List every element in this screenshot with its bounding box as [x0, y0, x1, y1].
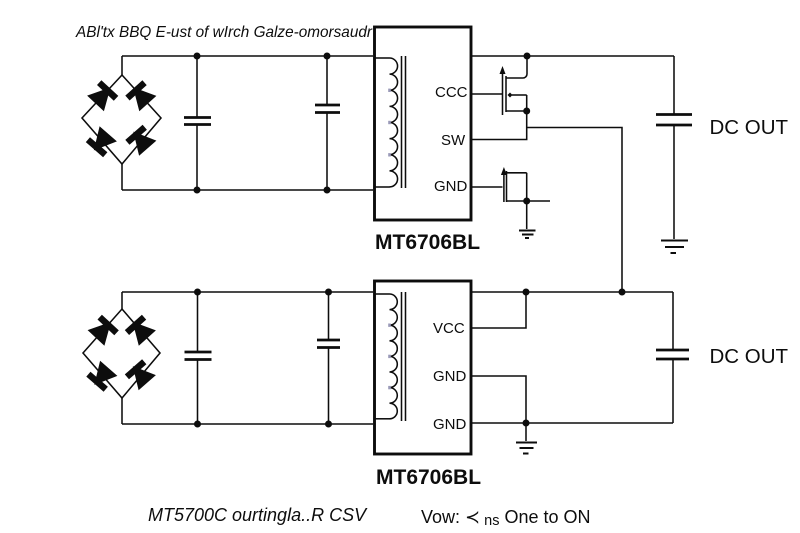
op-amp U1 (IC MT6706BL box) — [375, 27, 472, 220]
wire IC top right rail — [471, 55, 674, 57]
svg-text:Vow: ≺ ns One to ON: Vow: ≺ ns One to ON — [421, 507, 591, 529]
transformer T1 core lines — [401, 56, 403, 188]
diode D6 — [125, 315, 156, 346]
diode D1 — [87, 80, 118, 111]
wire bottom rail bottom circuit — [122, 423, 373, 425]
wire top rail — [122, 55, 373, 57]
wire Q2 source to ground — [526, 201, 528, 229]
node dot top C1 — [194, 53, 201, 60]
diode D7 — [86, 361, 117, 392]
capacitor C4 — [185, 292, 212, 424]
svg-text:CCC: CCC — [435, 84, 468, 101]
diode bridge BR1 diamond — [82, 75, 161, 164]
capacitor C3 output — [656, 56, 692, 239]
transformer T2 coil cusp specks — [388, 324, 391, 390]
wire Q1 source to SW pin — [471, 111, 527, 140]
svg-text:MT6706BL: MT6706BL — [375, 231, 480, 254]
transformer T2 primary stub top — [374, 293, 390, 295]
wire bottom rail — [122, 189, 373, 191]
transformer T1 coil — [390, 58, 398, 187]
capacitor C2 — [315, 56, 340, 190]
node dot bottom C4 — [194, 421, 201, 428]
node dot GND junction — [523, 420, 530, 427]
diode D2 — [125, 80, 156, 111]
svg-text:GND: GND — [433, 416, 467, 433]
node dot Q2 source — [523, 198, 530, 205]
capacitor C6 output — [656, 292, 689, 423]
node dot bottom C5 — [325, 421, 332, 428]
op-amp U2 (IC MT6706BL box) — [375, 281, 472, 454]
wire bridge top lead — [121, 56, 123, 76]
transformer T2 primary stub bottom — [374, 418, 390, 420]
wire bottom GND rail — [471, 422, 673, 424]
wire GND junction to ground — [525, 423, 527, 441]
svg-text:ABl'tx BBQ E-ust of wIrch Galz: ABl'tx BBQ E-ust of wIrch Galze-omorsaud… — [75, 24, 373, 41]
ground below C3 — [661, 241, 688, 254]
node dot bottom C2 — [324, 187, 331, 194]
node dot SW feed rail — [619, 289, 626, 296]
wire SW branch down to bottom circuit — [527, 128, 622, 293]
diode D5 — [88, 315, 119, 346]
transistor Q1 — [500, 56, 528, 115]
wire bridge bottom lead — [121, 163, 123, 190]
svg-text:DC OUT: DC OUT — [710, 345, 789, 368]
ground below Q2 — [519, 231, 536, 239]
node dot Q1 source — [523, 108, 530, 115]
wire gate Q2 from GND pin — [471, 186, 503, 188]
wire bridge bottom lead — [121, 397, 123, 424]
diode D8 — [125, 359, 156, 390]
node dot top C4 — [194, 289, 201, 296]
svg-text:VCC: VCC — [433, 320, 465, 337]
node dot top C2 — [324, 53, 331, 60]
transformer T1 coil cusp specks — [388, 89, 391, 157]
capacitor C5 — [317, 292, 340, 424]
diode D4 — [125, 125, 156, 156]
node dot VCC rail — [523, 289, 530, 296]
svg-text:GND: GND — [433, 368, 467, 385]
transformer T1 primary stub top — [374, 57, 390, 59]
wire top rail bottom circuit — [122, 291, 373, 293]
wire IC top right rail bottom circuit — [471, 291, 673, 293]
wire GND pin down to bottom rail — [471, 376, 526, 423]
svg-text:GND: GND — [434, 178, 468, 195]
ground below GND junction — [516, 443, 537, 454]
transformer T2 coil — [390, 294, 398, 419]
transformer T1 primary stub bottom — [374, 186, 390, 188]
node dot top C5 — [325, 289, 332, 296]
wire bridge top lead — [121, 292, 123, 310]
wire gate Q1 from CCC pin — [471, 93, 503, 95]
wire VCC pin up to rail — [471, 292, 526, 328]
transistor Q2 — [501, 167, 550, 202]
diode bridge BR2 diamond — [83, 309, 160, 398]
transformer T2 core lines — [401, 292, 403, 421]
capacitor C1 — [184, 56, 211, 190]
diode D3 — [86, 126, 117, 157]
node dot bottom C1 — [194, 187, 201, 194]
svg-text:MT6706BL: MT6706BL — [376, 466, 481, 489]
svg-text:DC OUT: DC OUT — [710, 116, 789, 139]
node dot Q1 drain — [524, 53, 531, 60]
svg-text:SW: SW — [441, 132, 466, 149]
svg-text:MT5700C ourtingla..R CSV: MT5700C ourtingla..R CSV — [148, 505, 368, 525]
